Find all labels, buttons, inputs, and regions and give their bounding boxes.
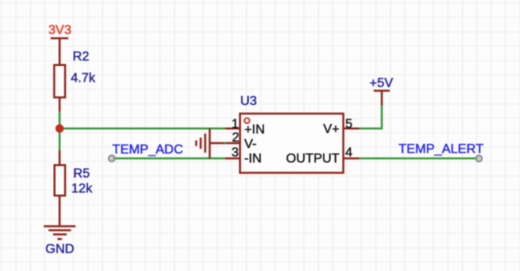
svg-text:5: 5: [345, 116, 352, 131]
svg-text:1: 1: [231, 116, 238, 131]
svg-text:3V3: 3V3: [48, 22, 71, 37]
svg-text:+IN: +IN: [244, 121, 265, 136]
svg-text:3: 3: [231, 145, 238, 160]
svg-text:TEMP_ALERT: TEMP_ALERT: [399, 141, 484, 156]
svg-text:+5V: +5V: [370, 75, 394, 90]
svg-text:OUTPUT: OUTPUT: [286, 150, 340, 165]
svg-text:U3: U3: [240, 93, 257, 108]
svg-text:V-: V-: [244, 136, 256, 151]
svg-text:4.7k: 4.7k: [71, 70, 96, 85]
svg-text:12k: 12k: [71, 181, 92, 196]
svg-text:GND: GND: [45, 241, 74, 256]
svg-text:R5: R5: [73, 166, 90, 181]
svg-text:R2: R2: [73, 49, 90, 64]
svg-text:2: 2: [232, 130, 239, 145]
svg-text:-IN: -IN: [244, 150, 261, 165]
svg-text:TEMP_ADC: TEMP_ADC: [112, 142, 183, 157]
svg-text:4: 4: [345, 145, 352, 160]
svg-text:V+: V+: [323, 121, 339, 136]
